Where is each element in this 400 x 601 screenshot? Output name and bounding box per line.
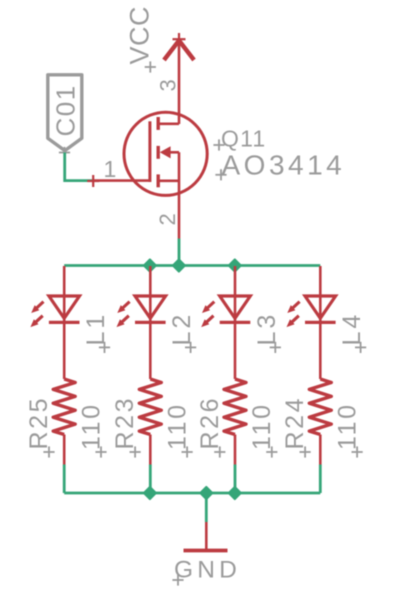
transistor Q11 body arrow (158, 146, 179, 159)
wire cathode/ground bus (64, 492, 320, 495)
label 110 (R26 value) (248, 402, 277, 457)
svg-text:VCC: VCC (125, 6, 155, 65)
connector C01 flag (48, 75, 82, 151)
wire R25 to ground bus (63, 465, 66, 494)
power VCC symbol (164, 33, 194, 124)
svg-text:3: 3 (156, 79, 181, 91)
label R24 (281, 396, 311, 458)
label L2 (168, 312, 196, 353)
LED L3 (201, 266, 250, 379)
label 110 (R25 value) (77, 402, 106, 457)
label R25 (25, 396, 55, 458)
junction dot bus/source (173, 259, 185, 271)
label L3 (253, 312, 281, 353)
svg-text:2: 2 (155, 213, 180, 225)
svg-text:R25: R25 (25, 396, 53, 450)
svg-text:L4: L4 (338, 312, 366, 346)
resistor R25 (53, 379, 75, 465)
svg-text:1: 1 (104, 156, 117, 182)
transistor Q11 body circle (124, 112, 207, 195)
transistor Q11 gate (93, 121, 150, 182)
junction dot bus/GND (200, 487, 212, 499)
transistor Q11 source (158, 152, 179, 238)
label R26 (196, 396, 226, 458)
wire C01 to Q11 gate (65, 153, 93, 181)
wire bus to GND (205, 493, 208, 522)
label R23 (111, 396, 141, 458)
wire Q11 source to LED bus (178, 239, 181, 266)
svg-text:110: 110 (164, 402, 192, 450)
junction dot bus/LED3 (229, 259, 241, 271)
svg-text:L1: L1 (82, 312, 110, 346)
svg-text:R26: R26 (196, 396, 224, 450)
resistor R23 (139, 379, 161, 465)
transistor Q11 drain (158, 117, 179, 130)
label L4 (338, 312, 366, 353)
svg-text:R24: R24 (281, 396, 309, 450)
svg-text:110: 110 (248, 402, 276, 450)
wire R23 to ground bus (149, 465, 152, 494)
label L1 (82, 312, 110, 353)
wire R26 to ground bus (234, 465, 237, 494)
wire anode bus (64, 264, 320, 267)
label 110 (R23 value) (164, 402, 193, 457)
LED L1 (30, 266, 79, 379)
ground GND symbol (184, 522, 228, 551)
LED L4 (287, 266, 336, 379)
LED L2 (117, 266, 166, 379)
svg-text:AO3414: AO3414 (222, 150, 346, 181)
junction dot bus/R23 (144, 487, 156, 499)
label C01 (51, 84, 81, 158)
label AO3414 (215, 150, 345, 181)
label Q11 (213, 126, 266, 152)
svg-text:L3: L3 (253, 312, 281, 346)
label VCC (125, 6, 156, 73)
svg-text:GND: GND (174, 557, 241, 584)
svg-text:Q11: Q11 (221, 126, 266, 152)
resistor R26 (224, 379, 246, 465)
label 110 (R24 value) (334, 402, 363, 457)
svg-text:R23: R23 (111, 396, 139, 450)
svg-text:C01: C01 (51, 84, 81, 136)
junction dot bus/LED2 (144, 259, 156, 271)
junction dot bus/R26 (229, 487, 241, 499)
resistor R24 (309, 379, 331, 465)
svg-text:L2: L2 (168, 312, 196, 346)
label GND (172, 557, 241, 586)
wire R24 to ground bus (319, 465, 322, 494)
svg-text:110: 110 (334, 402, 362, 450)
svg-text:110: 110 (77, 402, 105, 450)
pin 1 connection cross (87, 175, 99, 187)
